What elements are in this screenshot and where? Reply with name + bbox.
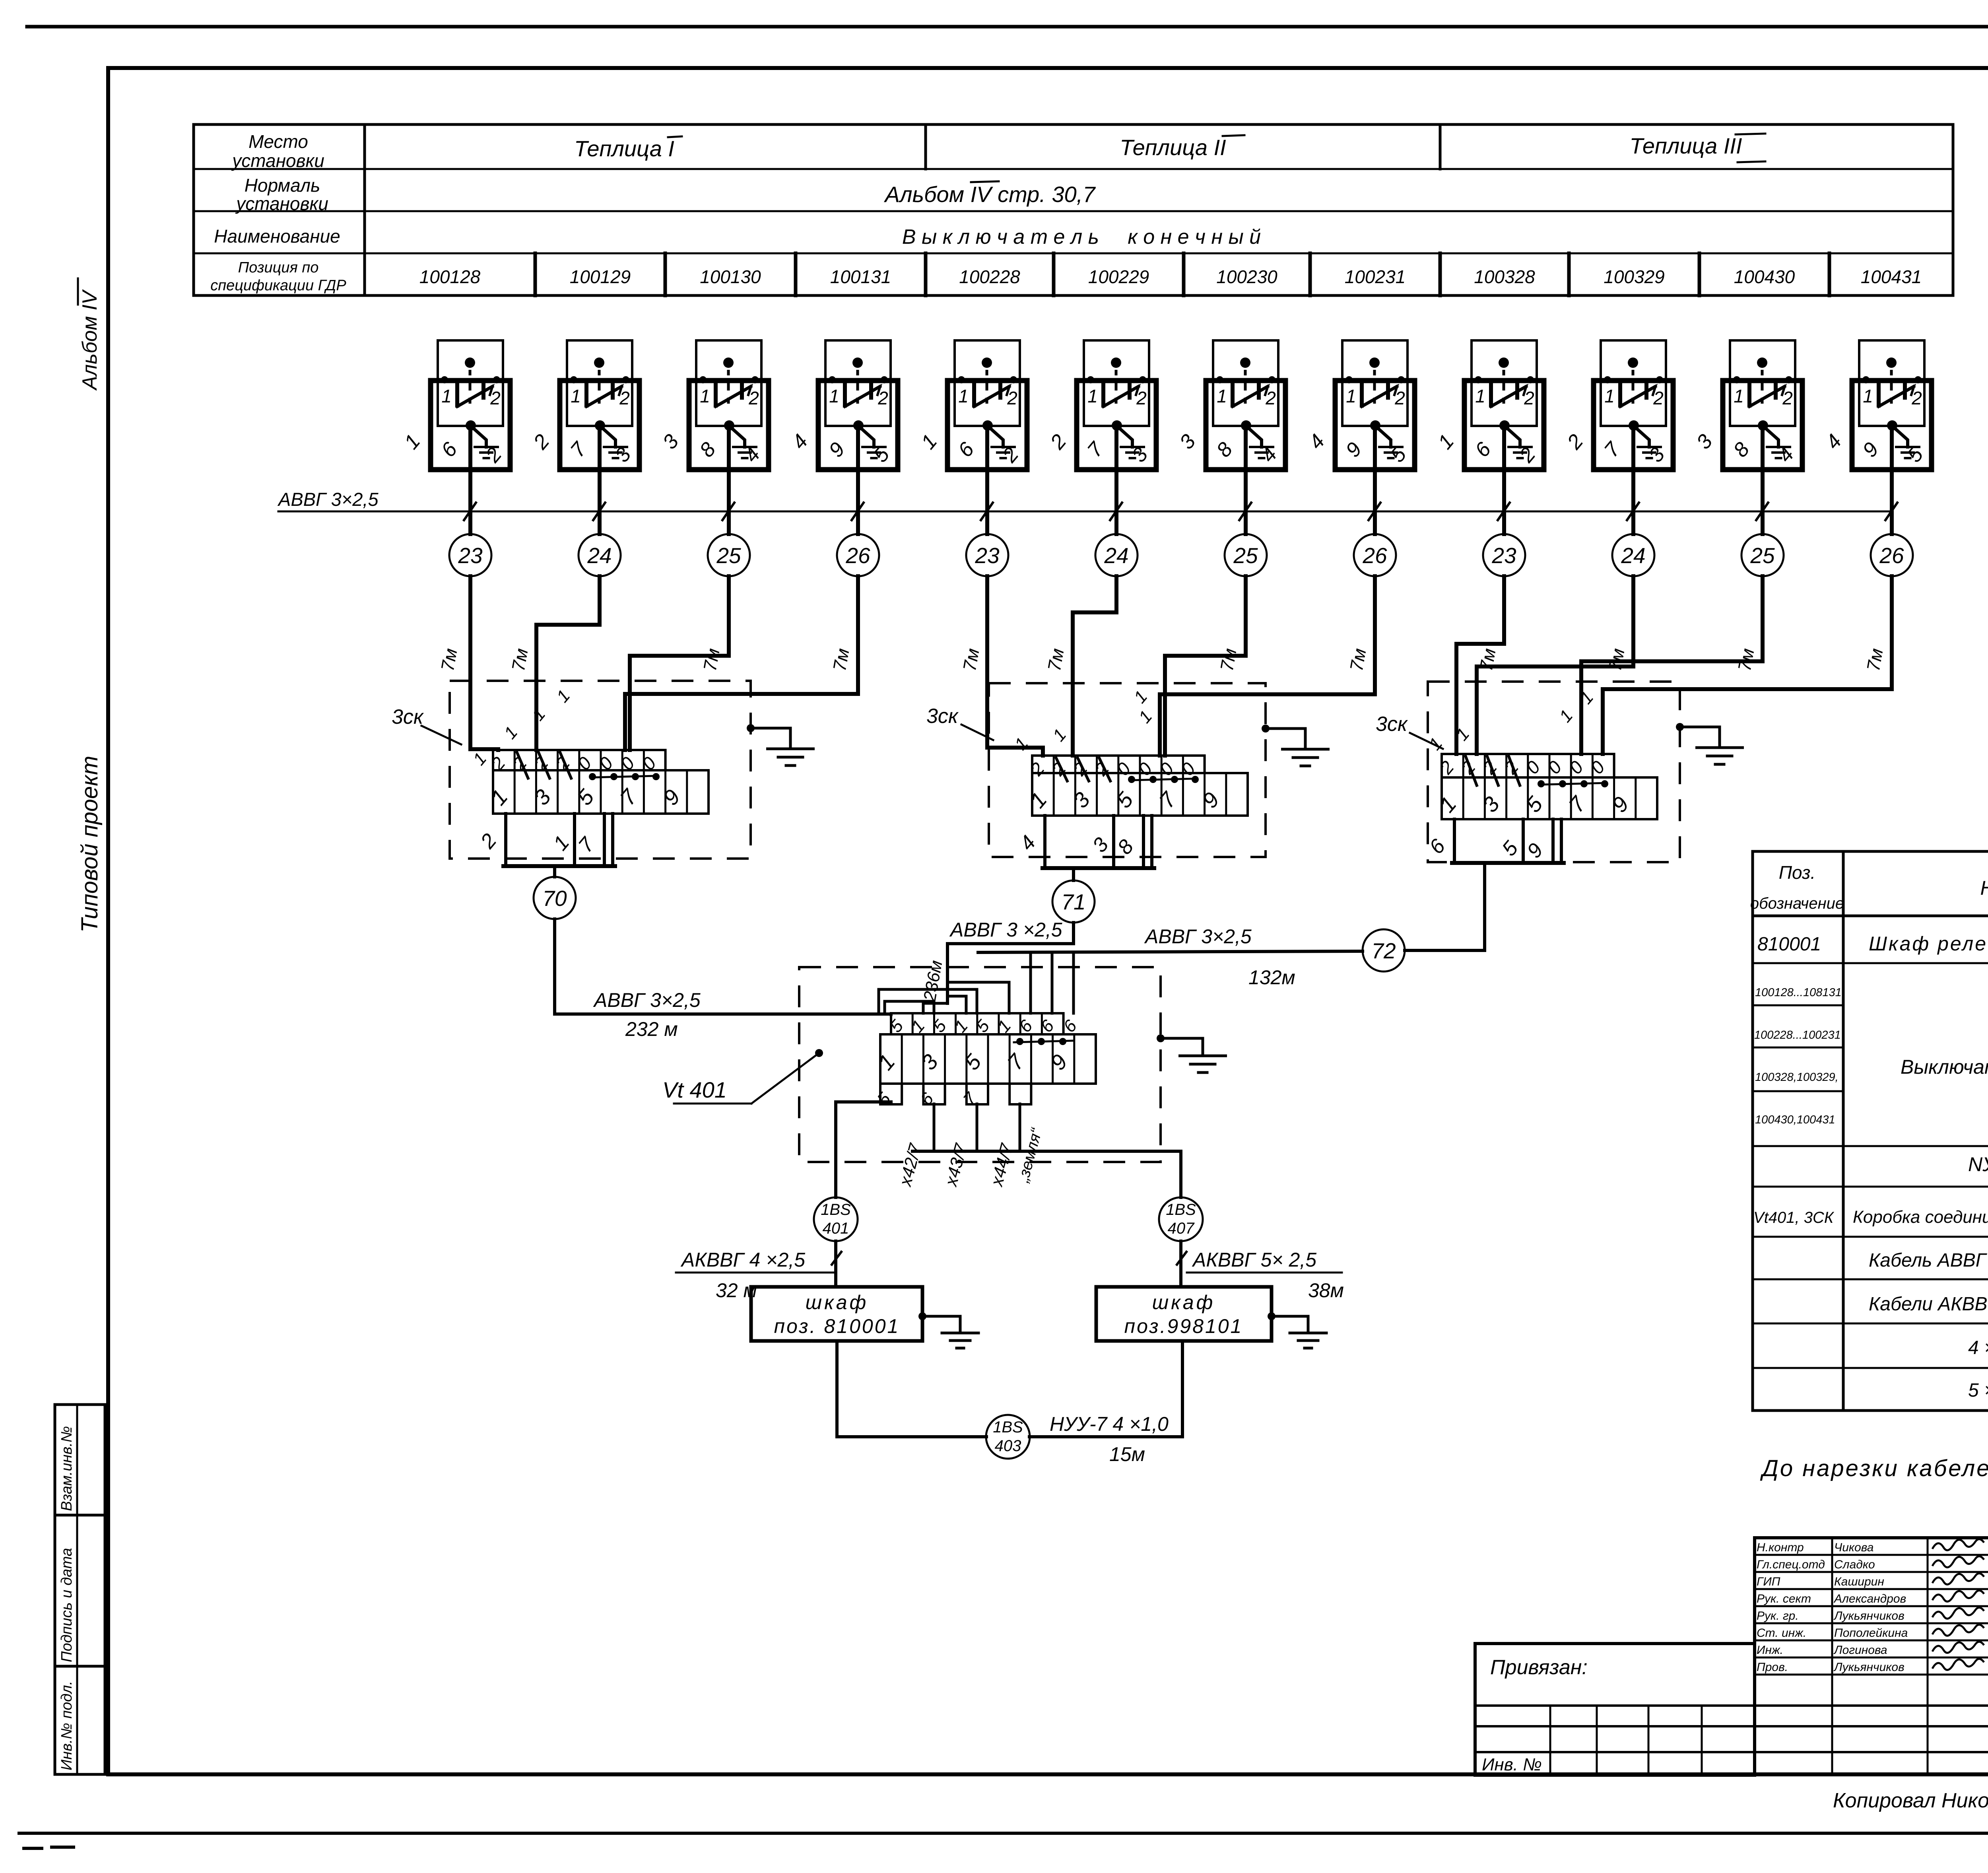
svg-text:Сладко: Сладко: [1834, 1558, 1875, 1571]
top table greenhouse column lines: [926, 124, 1440, 169]
svg-text:АВВГ 3 ×2,5: АВВГ 3 ×2,5: [949, 919, 1062, 941]
stamp box Podpis i data: [55, 1515, 105, 1666]
label 7m on wire 3: [699, 647, 724, 672]
cable NUU-7 between cabinets: [837, 1341, 1182, 1437]
wire 1BS401 to cabinet 810001: [832, 1241, 841, 1287]
trunk crossing tick at switch SQ1: [464, 503, 476, 520]
svg-text:2: 2: [490, 388, 501, 408]
svg-text:Теплица III: Теплица III: [1629, 133, 1742, 158]
svg-text:1: 1: [1087, 386, 1098, 406]
svg-text:Копировал Николаева: Копировал Николаева: [1833, 1789, 1988, 1812]
spec row Kabel AVVG: [1869, 1250, 1988, 1271]
label 7m on wire 8: [1346, 647, 1370, 672]
svg-text:В ы к л ю ч а т е л ь к о: В ы к л ю ч а т е л ь к о н е ч н ы й: [902, 225, 1261, 249]
wire 7m from node 26 gh3 to box 3SK-3: [1603, 576, 1892, 754]
svg-text:3ск: 3ск: [392, 705, 424, 729]
svg-text:установки: установки: [235, 193, 328, 214]
svg-text:Шкаф релейный: Шкаф релейный: [1869, 933, 1988, 955]
trunk crossing tick at switch SQ5: [981, 503, 993, 520]
svg-text:2: 2: [1265, 388, 1276, 408]
junction box Vt401 dashed enclosure: [799, 967, 1161, 1162]
svg-text:2: 2: [1524, 388, 1534, 408]
svg-text:100230: 100230: [1216, 266, 1277, 287]
node circle 23 of greenhouse 3: [1483, 534, 1525, 576]
svg-text:24: 24: [587, 543, 612, 568]
cable AVVG 3x2.5 132m Vt401 to node 72: [978, 863, 1485, 952]
wire 7m from node 24 gh2 to box 3SK-2: [1073, 576, 1116, 756]
junction box 3SK-2 dashed enclosure: [989, 683, 1266, 857]
svg-text:1: 1: [829, 386, 839, 406]
label NUU-7 4x1.0 15m: [1050, 1413, 1169, 1465]
wire switch SQ4 to trunk and node: [856, 426, 860, 534]
svg-text:100128: 100128: [419, 266, 481, 287]
svg-text:24: 24: [1621, 543, 1645, 568]
svg-text:Место: Место: [248, 131, 308, 152]
spec rows switch position groups: [1754, 986, 1842, 1126]
svg-text:спецификации ГДР: спецификации ГДР: [210, 277, 346, 294]
node circle 24 of greenhouse 2: [1095, 534, 1138, 576]
svg-text:АВВГ 3×2,5: АВВГ 3×2,5: [277, 489, 379, 510]
svg-text:шкаф: шкаф: [1152, 1291, 1215, 1313]
svg-text:7м: 7м: [437, 647, 461, 672]
node circle 25 of greenhouse 3: [1741, 534, 1784, 576]
top table header Pozitsiya po spetsifikatsii GDR: [210, 259, 346, 294]
svg-text:71: 71: [1061, 890, 1085, 914]
node circle 72: [1363, 929, 1405, 971]
svg-text:2: 2: [878, 388, 888, 408]
junction box 3SK-1 outgoing terminal block: [476, 814, 615, 866]
wire 7m from node 26 gh2 to box 3SK-2: [1160, 576, 1375, 756]
svg-text:100131: 100131: [830, 266, 891, 287]
svg-text:Альбом IV: Альбом IV: [78, 289, 101, 391]
label 7m on wire 10: [1604, 647, 1629, 672]
sheet top edge line: [27, 25, 1988, 29]
svg-text:Выключатель конечный: Выключатель конечный: [1901, 1056, 1988, 1078]
note do narezki kabeley: [1760, 1455, 1988, 1481]
svg-text:24: 24: [1104, 543, 1128, 568]
svg-text:Пополейкина: Пополейкина: [1834, 1626, 1908, 1640]
svg-text:2: 2: [1653, 388, 1664, 408]
svg-text:Наименование: Наименование: [214, 226, 340, 247]
svg-text:7м: 7м: [1734, 647, 1758, 672]
svg-text:26: 26: [845, 543, 870, 568]
trunk crossing tick at switch SQ6: [1110, 503, 1122, 520]
trunk crossing tick at switch SQ10: [1627, 503, 1639, 520]
limit switch SQ7 (pos 100230): [1175, 340, 1285, 470]
wire switch SQ12 to trunk and node: [1890, 426, 1894, 534]
label AVVG 3x2.5 132m: [1144, 925, 1295, 989]
limit switch SQ4 (pos 100131): [787, 340, 898, 470]
svg-text:Логинова: Логинова: [1833, 1644, 1887, 1657]
spec header Naimenovanie: [1980, 877, 1988, 899]
svg-text:Каширин: Каширин: [1834, 1575, 1884, 1588]
limit switch SQ8 (pos 100231): [1304, 340, 1415, 470]
node circle 25 of greenhouse 1: [708, 534, 750, 576]
top table position numbers row: [419, 266, 1922, 287]
svg-text:3ск: 3ск: [926, 705, 959, 728]
svg-text:Н а и м е н о в а н и е: Н а и м е н о в а н и е: [1980, 877, 1988, 899]
spec row Vyklyuchatel konechnyi: [1901, 1056, 1988, 1086]
spec header Poz oboznachenie: [1750, 862, 1844, 912]
wire 7m from node 24 gh1 to box 3SK-1: [536, 576, 600, 750]
svg-text:Пров.: Пров.: [1757, 1661, 1788, 1674]
svg-text:1: 1: [958, 386, 969, 406]
cabinet box 998101: [1096, 1287, 1272, 1341]
svg-text:810001: 810001: [1757, 934, 1821, 955]
svg-text:2: 2: [1782, 388, 1793, 408]
junction box 3SK-1 terminal jumper: [589, 773, 660, 780]
margin caption Tipovoy proekt: [77, 756, 103, 933]
svg-text:Инж.: Инж.: [1757, 1644, 1783, 1657]
junction box 3SK-1 dashed enclosure: [450, 681, 751, 859]
Vt401 terminal jumper: [1014, 1038, 1074, 1045]
svg-text:ГИП: ГИП: [1757, 1575, 1780, 1588]
wire switch SQ7 to trunk and node: [1244, 426, 1248, 534]
limit switch SQ11 (pos 100430): [1692, 340, 1802, 470]
wire 7m from node 23 gh1 to box 3SK-1: [470, 576, 498, 750]
trunk crossing tick at switch SQ12: [1885, 503, 1897, 520]
svg-text:Теплица I: Теплица I: [574, 136, 674, 161]
svg-text:100328: 100328: [1474, 266, 1535, 287]
svg-text:1: 1: [1475, 386, 1485, 406]
wire switch SQ5 to trunk and node: [985, 426, 989, 534]
signature table entries: [1757, 1539, 1988, 1674]
node circle 26 of greenhouse 2: [1354, 534, 1396, 576]
svg-text:Ст. инж.: Ст. инж.: [1757, 1626, 1806, 1640]
svg-text:15м: 15м: [1109, 1443, 1145, 1465]
Vt401 incoming terminal row: [886, 1013, 1081, 1036]
label AVVG 3x2.5 on 236m cable: [949, 919, 1062, 941]
cable AVVG 3x2.5 236m node71 to Vt401: [947, 923, 1074, 1003]
svg-text:7м: 7м: [1863, 647, 1887, 672]
svg-text:Взам.инв.№: Взам.инв.№: [58, 1426, 75, 1511]
wire core labels 1 at junction box entries: [469, 686, 1597, 769]
top table outer frame: [194, 124, 1953, 295]
svg-text:поз.998101: поз.998101: [1124, 1315, 1243, 1337]
svg-text:100228: 100228: [959, 266, 1020, 287]
svg-text:Н.контр: Н.контр: [1757, 1541, 1804, 1554]
svg-text:1: 1: [700, 386, 710, 406]
label 7m on wire 12: [1863, 647, 1887, 672]
node circle 1BS401: [814, 1197, 858, 1241]
junction box 3SK-3 dashed enclosure: [1428, 682, 1680, 862]
trunk cable line AVVG 3x2.5: [278, 511, 1892, 513]
svg-text:26: 26: [1879, 543, 1904, 568]
wire switch SQ3 to trunk and node: [727, 426, 731, 534]
svg-text:1: 1: [1604, 386, 1615, 406]
spec table outer frame: [1753, 851, 1988, 1411]
wire Vt401 terminal 5 to node 1BS401: [836, 1102, 891, 1197]
svg-text:25: 25: [1233, 543, 1258, 568]
wire switch SQ1 to trunk and node: [468, 426, 472, 534]
label 7m on wire 1: [437, 647, 461, 672]
svg-text:7м: 7м: [829, 647, 853, 672]
wire switch SQ9 to trunk and node: [1502, 426, 1506, 534]
limit switch SQ3 (pos 100130): [658, 340, 769, 470]
top table header column line: [363, 124, 366, 295]
wire 1BS407 to cabinet 998101: [1177, 1241, 1186, 1287]
wire box1 strip to node 70: [553, 866, 556, 877]
top table header Naimenovanie: [214, 226, 340, 247]
Vt401 core labels x42/7 x43/7 x44/7 zemlya: [895, 1125, 1046, 1189]
top table cell Teplitsa I: [574, 136, 682, 161]
label 7m on wire 5: [959, 647, 983, 672]
svg-text:NУУ- 7 4 ×1,0: NУУ- 7 4 ×1,0: [1968, 1153, 1988, 1175]
node circle 70: [534, 877, 576, 919]
junction box 3SK-3 incoming terminal row: [1435, 754, 1614, 785]
label AVVG 3x2.5 trunk: [277, 489, 379, 510]
signature table frame: [1755, 1538, 1988, 1774]
spec table row lines: [1753, 963, 1988, 1368]
label 7m on wire 6: [1044, 647, 1068, 672]
wire 7m from node 25 gh1 to box 3SK-1: [630, 576, 729, 750]
svg-text:100228...100231: 100228...100231: [1754, 1029, 1841, 1041]
svg-text:Инв.№ подл.: Инв.№ подл.: [58, 1681, 75, 1770]
top table cell Vyklyuchatel konechnyi: [902, 225, 1261, 249]
sheet bottom edge line: [19, 1833, 1988, 1848]
Vt401 terminal strip 1-9: [873, 1034, 1096, 1084]
limit switch SQ1 (pos 100128): [400, 340, 510, 470]
svg-text:2: 2: [748, 388, 759, 408]
top table row lines: [194, 169, 1953, 253]
wire Vt401 terminals to node 1BS407: [912, 1104, 1181, 1197]
wire 7m from node 25 gh2 to box 3SK-2: [1165, 576, 1246, 756]
wire switch SQ6 to trunk and node: [1114, 426, 1118, 534]
trunk crossing tick at switch SQ7: [1239, 503, 1251, 520]
wire switch SQ2 to trunk and node: [598, 426, 602, 534]
label 3SK for box 1: [392, 705, 461, 744]
svg-text:Чикова: Чикова: [1834, 1541, 1873, 1554]
wire 7m from node 23 gh2 to box 3SK-2: [987, 576, 1043, 756]
spec table column lines: [1843, 851, 1988, 1411]
svg-text:Коробка соединительная КС-10: Коробка соединительная КС-10 ТУ36.1764-7…: [1853, 1207, 1988, 1227]
limit switch SQ9 (pos 100328): [1433, 340, 1544, 470]
node circle 23 of greenhouse 2: [966, 534, 1008, 576]
wire switch SQ11 to trunk and node: [1761, 426, 1765, 534]
svg-text:Vt 401: Vt 401: [662, 1077, 727, 1102]
svg-text:Позиция по: Позиция по: [238, 259, 319, 276]
label 3SK for box 3: [1376, 713, 1443, 749]
svg-text:7м: 7м: [1475, 647, 1500, 672]
svg-text:407: 407: [1168, 1220, 1195, 1237]
svg-text:НУУ-7 4 ×1,0: НУУ-7 4 ×1,0: [1050, 1413, 1169, 1435]
svg-text:АВВГ 3×2,5: АВВГ 3×2,5: [1144, 925, 1252, 948]
svg-text:Лукьянчиков: Лукьянчиков: [1833, 1609, 1905, 1622]
label AKVVG 5x2.5 38m: [1187, 1249, 1344, 1302]
junction box 3SK-3 earth connection: [1676, 723, 1743, 764]
svg-text:Теплица II: Теплица II: [1120, 135, 1226, 160]
margin caption Album IV: [78, 278, 101, 391]
spec row 4x2.5: [1968, 1337, 1988, 1358]
spec row Korobka soedinitelnaya: [1753, 1202, 1988, 1227]
wire box3 strip to cable 132m: [1483, 863, 1486, 950]
Vt401 outgoing terminal boxes: [873, 1084, 1031, 1109]
junction box 3SK-2 incoming terminal row: [1026, 756, 1205, 781]
svg-text:100431: 100431: [1861, 266, 1922, 287]
junction box 3SK-2 terminal jumper: [1128, 776, 1199, 783]
svg-text:25: 25: [716, 543, 741, 568]
svg-text:23: 23: [458, 543, 483, 568]
svg-text:шкаф: шкаф: [806, 1291, 869, 1313]
svg-text:26: 26: [1362, 543, 1387, 568]
svg-text:132м: 132м: [1248, 966, 1295, 989]
svg-text:1BS: 1BS: [993, 1418, 1023, 1436]
svg-text:поз. 810001: поз. 810001: [774, 1315, 900, 1337]
stamp box Inv no podl: [55, 1666, 105, 1774]
svg-text:7м: 7м: [1216, 647, 1241, 672]
svg-text:1: 1: [1863, 386, 1873, 406]
title block privyazan grid: [1475, 1706, 1988, 1774]
svg-text:7м: 7м: [959, 647, 983, 672]
svg-text:4 × 2,5: 4 × 2,5: [1968, 1337, 1988, 1358]
label AKVVG 4x2.5 32m: [676, 1249, 833, 1302]
label 7m on wire 4: [829, 647, 853, 672]
junction box 3SK-2 outgoing terminal block: [1015, 816, 1154, 868]
spec row Kabeli AKVVG: [1869, 1294, 1988, 1315]
svg-text:Инв. №: Инв. №: [1482, 1755, 1542, 1774]
svg-text:100130: 100130: [700, 266, 761, 287]
svg-text:Кабель АВВГ 3× 2,5 ГОСТ 1644: Кабель АВВГ 3× 2,5 ГОСТ 16442-80: [1869, 1250, 1988, 1271]
node circle 25 of greenhouse 2: [1225, 534, 1267, 576]
svg-text:100328,100329,: 100328,100329,: [1755, 1071, 1839, 1084]
svg-text:3ск: 3ск: [1376, 713, 1408, 736]
label 7m on wire 11: [1734, 647, 1758, 672]
svg-text:2: 2: [1136, 388, 1147, 408]
svg-text:70: 70: [542, 886, 567, 911]
trunk crossing tick at switch SQ8: [1369, 503, 1380, 520]
svg-text:Рук. сект: Рук. сект: [1757, 1592, 1811, 1605]
trunk crossing tick at switch SQ11: [1756, 503, 1768, 520]
top table cell Albom IV str 30 7: [884, 181, 1096, 207]
node circle 71: [1052, 880, 1095, 923]
svg-text:Гл.спец.отд: Гл.спец.отд: [1757, 1558, 1825, 1571]
svg-text:1: 1: [571, 386, 581, 406]
svg-text:401: 401: [823, 1220, 849, 1237]
trunk crossing tick at switch SQ4: [852, 503, 864, 520]
svg-text:Нормаль: Нормаль: [245, 175, 320, 196]
top table cell Teplitsa II: [1120, 135, 1244, 160]
trunk crossing tick at switch SQ9: [1498, 503, 1510, 520]
cabinet 998101 earth: [1268, 1312, 1326, 1348]
svg-text:1: 1: [1734, 386, 1744, 406]
svg-text:7м: 7м: [1044, 647, 1068, 672]
svg-text:100231: 100231: [1345, 266, 1406, 287]
svg-text:72: 72: [1371, 938, 1396, 963]
svg-text:100229: 100229: [1088, 266, 1149, 287]
svg-text:Александров: Александров: [1833, 1592, 1906, 1605]
junction box 3SK-1 incoming terminal row: [487, 750, 666, 778]
top table position row cell dividers: [535, 253, 1829, 295]
svg-text:25: 25: [1750, 543, 1775, 568]
svg-text:Типовой проект: Типовой проект: [77, 756, 103, 933]
wire 7m from node 26 gh1 to box 3SK-1: [625, 576, 858, 750]
svg-text:7м: 7м: [699, 647, 724, 672]
svg-text:2: 2: [1911, 388, 1922, 408]
Vt401 earth connection: [1157, 1034, 1226, 1073]
junction box 3SK-1 terminal strip 1-9: [486, 770, 709, 814]
label Vt 401: [662, 1049, 823, 1104]
svg-text:100128...108131: 100128...108131: [1755, 986, 1842, 999]
junction box 3SK-3 outgoing terminal block: [1425, 819, 1564, 863]
svg-text:2: 2: [1007, 388, 1017, 408]
svg-text:Рук. гр.: Рук. гр.: [1757, 1609, 1799, 1622]
svg-text:2: 2: [619, 388, 630, 408]
wire 7m from node 23 gh3 to box 3SK-3: [1456, 576, 1504, 754]
svg-text:1: 1: [1217, 386, 1227, 406]
node circle 24 of greenhouse 3: [1612, 534, 1654, 576]
cabinet 810001 earth: [918, 1312, 978, 1348]
svg-text:100430,100431: 100430,100431: [1755, 1113, 1835, 1126]
svg-text:Привязан:: Привязан:: [1490, 1656, 1588, 1679]
trunk crossing tick at switch SQ2: [593, 503, 605, 520]
svg-text:100430: 100430: [1734, 266, 1795, 287]
node circle 1BS407: [1159, 1197, 1203, 1241]
junction box 3SK-3 terminal strip 1-9: [1435, 777, 1657, 819]
limit switch SQ12 (pos 100431): [1821, 340, 1932, 470]
svg-text:7м: 7м: [508, 647, 532, 672]
cabinet box 810001: [751, 1287, 922, 1341]
junction box 3SK-2 earth connection: [1262, 725, 1328, 766]
label AVVG 3x2.5 232m: [593, 989, 701, 1040]
junction box 3SK-2 terminal strip 1-9: [1025, 773, 1248, 816]
label 3SK for box 2: [926, 705, 993, 740]
limit switch SQ2 (pos 100129): [529, 340, 639, 470]
svg-text:232 м: 232 м: [625, 1018, 678, 1040]
Vt401 wires from 236m cable to terminals 1: [923, 982, 1009, 1013]
svg-text:Альбом IV стр. 30,7: Альбом IV стр. 30,7: [884, 182, 1096, 207]
svg-text:Vt401, 3СК: Vt401, 3СК: [1753, 1209, 1835, 1226]
svg-text:АВВГ 3×2,5: АВВГ 3×2,5: [593, 989, 701, 1011]
svg-text:установки: установки: [231, 150, 324, 171]
wire box2 strip to node 71: [1072, 868, 1075, 880]
wire 7m from node 25 gh3 to box 3SK-3: [1581, 576, 1763, 754]
svg-text:1BS: 1BS: [821, 1201, 851, 1218]
spec row 810001 Shkaf releynyi: [1757, 930, 1988, 955]
top table cell Teplitsa III: [1629, 133, 1765, 162]
Vt401 wires from 232m cable to terminals 5: [879, 989, 977, 1015]
svg-text:23: 23: [1491, 543, 1516, 568]
spec table header row line: [1753, 915, 1988, 917]
svg-text:403: 403: [995, 1437, 1021, 1455]
junction box 3SK-3 terminal jumper: [1538, 780, 1608, 787]
svg-text:1BS: 1BS: [1166, 1201, 1196, 1218]
svg-text:Лукьянчиков: Лукьянчиков: [1833, 1661, 1905, 1674]
trunk crossing tick at switch SQ3: [722, 503, 734, 520]
limit switch SQ5 (pos 100228): [916, 340, 1027, 470]
svg-text:Подпись и дата: Подпись и дата: [58, 1548, 75, 1662]
top table header Mesto ustanovki: [231, 131, 324, 171]
node circle 26 of greenhouse 3: [1871, 534, 1913, 576]
svg-text:обозначение: обозначение: [1750, 895, 1844, 912]
svg-text:100329: 100329: [1604, 266, 1665, 287]
limit switch SQ10 (pos 100329): [1563, 340, 1673, 470]
svg-text:Поз.: Поз.: [1779, 862, 1816, 883]
svg-text:5 × 2,5: 5 × 2,5: [1968, 1380, 1988, 1401]
svg-text:7м: 7м: [1346, 647, 1370, 672]
svg-text:АКВВГ 4 ×2,5: АКВВГ 4 ×2,5: [680, 1249, 805, 1271]
node circle 23 of greenhouse 1: [449, 534, 491, 576]
svg-text:23: 23: [975, 543, 1000, 568]
limit switch SQ6 (pos 100229): [1046, 340, 1156, 470]
svg-text:2: 2: [1394, 388, 1405, 408]
wire 7m from node 24 gh3 to box 3SK-3: [1477, 576, 1633, 754]
label 7m on wire 7: [1216, 647, 1241, 672]
label 236m rotated: [920, 959, 946, 1003]
top table header Normal ustanovki: [235, 175, 328, 214]
label 7m on wire 2: [508, 647, 532, 672]
node circle 1BS403: [986, 1415, 1030, 1459]
node circle 26 of greenhouse 1: [837, 534, 879, 576]
